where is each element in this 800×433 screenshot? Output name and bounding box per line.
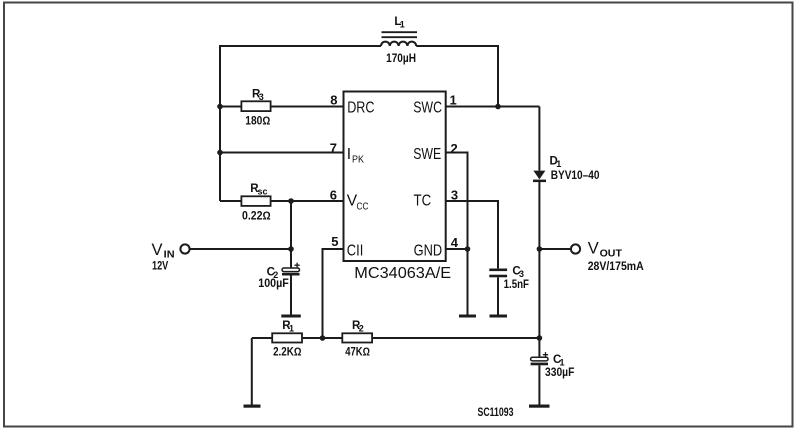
svg-text:I: I <box>347 146 351 163</box>
svg-text:330µF: 330µF <box>545 367 574 379</box>
svg-text:1: 1 <box>560 358 565 368</box>
svg-text:1: 1 <box>556 159 561 169</box>
svg-text:SC11093: SC11093 <box>478 407 514 419</box>
svg-text:IN: IN <box>164 250 175 261</box>
svg-text:1: 1 <box>289 324 294 334</box>
svg-text:TC: TC <box>414 193 432 210</box>
svg-text:SWE: SWE <box>413 146 441 163</box>
svg-text:2: 2 <box>451 141 458 156</box>
svg-text:sc: sc <box>258 187 268 197</box>
svg-text:OUT: OUT <box>600 249 622 260</box>
svg-text:7: 7 <box>330 141 337 156</box>
svg-text:5: 5 <box>331 234 338 249</box>
svg-text:V: V <box>588 240 599 258</box>
svg-text:CC: CC <box>357 202 369 213</box>
svg-text:3: 3 <box>259 92 264 102</box>
svg-text:CII: CII <box>347 243 364 260</box>
svg-text:1: 1 <box>400 20 405 30</box>
svg-text:0.22Ω: 0.22Ω <box>242 210 271 222</box>
svg-text:100µF: 100µF <box>258 278 289 290</box>
svg-text:8: 8 <box>330 93 337 108</box>
svg-text:2.2KΩ: 2.2KΩ <box>273 347 301 359</box>
svg-text:1.5nF: 1.5nF <box>504 279 529 291</box>
svg-text:PK: PK <box>352 155 364 166</box>
svg-text:4: 4 <box>451 235 459 250</box>
svg-text:6: 6 <box>330 188 337 203</box>
svg-text:DRC: DRC <box>347 100 374 117</box>
svg-text:180Ω: 180Ω <box>245 115 270 127</box>
svg-text:3: 3 <box>519 269 524 279</box>
svg-text:V: V <box>152 241 163 259</box>
svg-text:3: 3 <box>451 188 458 203</box>
svg-text:GND: GND <box>414 243 443 260</box>
svg-text:BYV10–40: BYV10–40 <box>551 170 600 182</box>
svg-text:12V: 12V <box>152 261 169 273</box>
svg-text:170µH: 170µH <box>386 53 416 65</box>
svg-text:47KΩ: 47KΩ <box>345 347 370 359</box>
svg-text:2: 2 <box>359 324 364 334</box>
svg-text:MC34063A/E: MC34063A/E <box>354 265 451 282</box>
svg-text:SWC: SWC <box>413 100 442 117</box>
svg-text:28V/175mA: 28V/175mA <box>588 261 644 273</box>
svg-text:1: 1 <box>450 93 457 108</box>
